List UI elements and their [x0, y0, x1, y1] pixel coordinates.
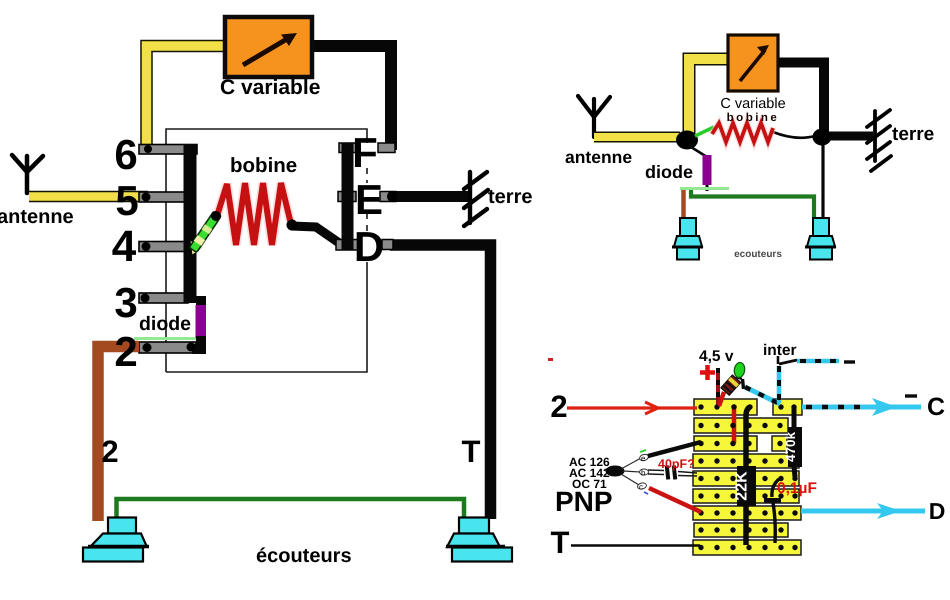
terminal bar E (right piece): [380, 192, 396, 202]
wire: brown lead terminal 2 to left earphone: [98, 347, 139, 522]
svg-text:22K: 22K: [734, 471, 751, 501]
strip row6: [693, 489, 799, 503]
strip row3 right: [772, 436, 787, 451]
wire: base double lead with capacitor 40pF: [648, 470, 697, 476]
ground symbol terre (big): [464, 172, 488, 226]
svg-text:2: 2: [101, 434, 118, 469]
earphone right (mini): [807, 218, 835, 260]
arrow inside C variable: [243, 36, 292, 65]
transistor Q1 (body): [606, 466, 625, 477]
svg-text:2: 2: [114, 328, 137, 375]
wire: diode to terminal 2: [192, 336, 201, 349]
terminal dots: [144, 145, 152, 153]
node: coil left end: [211, 211, 221, 221]
terminal bar D (right piece): [382, 240, 393, 250]
small red speck: [548, 358, 553, 361]
strip row7: [693, 506, 801, 520]
wire: black lead C variable to earth node (mini): [777, 63, 824, 135]
svg-text:e: e: [641, 454, 646, 463]
wire: cyan dashed switch down to strip: [777, 366, 782, 403]
svg-text:écouteurs: écouteurs: [256, 545, 352, 567]
redraw holes over red link: [731, 404, 736, 409]
wire: link node to diode (mini): [691, 147, 707, 157]
coil L1 (bobine, red zigzag): [217, 183, 291, 245]
svg-text:C: C: [927, 393, 945, 421]
svg-text:5: 5: [115, 177, 138, 224]
earphone left (mini): [674, 218, 702, 260]
svg-text:PNP: PNP: [555, 486, 613, 517]
svg-text:4: 4: [112, 222, 137, 271]
svg-text:diode: diode: [645, 162, 693, 182]
wire: black lead C variable to terminal F: [311, 46, 391, 150]
strip row3 left: [694, 436, 757, 451]
wire: red lead resistor to strip: [719, 392, 724, 406]
svg-text:bobine: bobine: [727, 112, 780, 124]
earphone right (écouteur): [447, 518, 512, 562]
svg-text:T: T: [551, 525, 570, 560]
wire: brown lead to left earphone (mini): [681, 190, 686, 217]
crystal detector (green striped element between 4 and coil): [185, 210, 223, 258]
strip holes: [698, 404, 797, 550]
wire: green lead between earphones: [117, 499, 465, 520]
svg-text:c: c: [639, 483, 643, 492]
terminal bar E (left piece): [338, 192, 356, 202]
wire: red input lead node 2: [567, 406, 697, 409]
wire: cyan dashed from switch right: [797, 359, 839, 364]
resistor 22K (black bar with label): [746, 407, 750, 545]
svg-text:0,1µF: 0,1µF: [777, 480, 817, 497]
strip row1 right: [773, 399, 802, 415]
svg-text:D: D: [929, 498, 946, 524]
terminal bar 4: [139, 242, 189, 252]
terminal bar 5: [139, 192, 190, 202]
diode D1 (big, purple body): [196, 305, 207, 338]
pin e: [639, 453, 649, 461]
node: earth junction (mini): [813, 129, 832, 146]
pin c: [637, 482, 647, 490]
svg-text:4,5 v: 4,5 v: [699, 348, 734, 365]
wire: thin link coil to earth node (mini): [773, 132, 815, 138]
wire: yellow lead terminal 6 to C variable: [147, 46, 227, 150]
svg-text:C variable: C variable: [220, 76, 320, 99]
minus sign near C: [905, 394, 917, 397]
strip row1 left: [694, 399, 757, 415]
wire: link terminal 3 to diode: [196, 296, 206, 310]
terminal bar F (right piece): [378, 143, 395, 153]
wire: red link row1 to row3: [732, 407, 737, 443]
wire: battery lead (dark red dashed): [716, 368, 720, 405]
wire: collector to row7 (red): [649, 488, 701, 512]
wire: below diode (mini): [706, 185, 709, 191]
wire: yellow antenna lead (mini): [594, 132, 680, 143]
arrowhead cyan C: [872, 398, 897, 416]
wire: thin frame box around coil circuit: [166, 129, 367, 372]
terminal bar 3: [139, 293, 188, 303]
svg-text:terre: terre: [892, 124, 934, 145]
LED (green): [733, 362, 745, 378]
battery plus sign (red): [700, 365, 715, 380]
breadboard strips: [693, 399, 802, 555]
node: coil right end: [287, 220, 298, 231]
terminal bar 2: [139, 342, 196, 353]
ground symbol terre (mini): [867, 110, 891, 171]
wire: thick lead D to right earphone (node T): [390, 245, 491, 519]
svg-text:T: T: [462, 434, 481, 469]
light green mark (mini): [680, 187, 729, 190]
arrow inside C variable (mini): [740, 50, 765, 81]
capacitor 40pF plates: [665, 465, 670, 479]
resistor 470k (black bar with label): [794, 407, 795, 477]
resistor R (striped body): [721, 375, 741, 395]
wire: coil end to D: [291, 226, 345, 247]
strip row5: [693, 471, 799, 486]
wire: cyan output D: [801, 509, 925, 514]
earphone left (écouteur): [83, 518, 147, 562]
terminal bar D (left piece): [336, 240, 359, 251]
wire: emitter to row3 (thick black): [648, 442, 701, 456]
antenna symbol (mini): [578, 96, 610, 137]
svg-text:antenne: antenne: [0, 206, 74, 228]
capacitor 0,1uF: [772, 479, 779, 497]
svg-text:40pF?: 40pF?: [658, 457, 695, 471]
light green mark above terminal 2: [134, 337, 197, 340]
wire: thick lead E to earth: [394, 191, 470, 202]
node at E: [387, 191, 397, 202]
wire: vertical bus joining F E D: [342, 143, 354, 250]
crystal link (green, mini): [695, 127, 714, 136]
antenna symbol: [12, 155, 43, 193]
variable capacitor (orange box mini): [728, 35, 778, 91]
wire: LED cathode short black: [743, 379, 744, 389]
wire: thick lead node to earth (mini): [828, 132, 873, 141]
svg-text:E: E: [355, 176, 383, 223]
svg-text:6: 6: [114, 131, 137, 178]
svg-text:bobine: bobine: [230, 154, 297, 177]
pin b: [640, 469, 649, 475]
arrowhead on red lead: [645, 402, 658, 414]
svg-text:470k: 470k: [783, 431, 798, 462]
svg-text:terre: terre: [488, 186, 532, 208]
wire: cyan dashed output C: [802, 405, 921, 410]
wire: vertical bus joining terminals 6..3: [184, 144, 197, 303]
svg-text:antenne: antenne: [565, 147, 632, 167]
strip row4: [693, 454, 799, 468]
node: antenna junction (mini): [676, 131, 698, 150]
terminal bar F (left piece): [339, 143, 357, 153]
svg-text:b: b: [641, 469, 646, 478]
coil L (bobine mini, red zigzag): [712, 123, 773, 142]
strip row9: [693, 540, 801, 555]
wire: cyan dashed LED to strip: [745, 387, 780, 404]
svg-text:2: 2: [550, 389, 567, 424]
variable capacitor C1 (orange box): [225, 17, 312, 77]
wire: black lead node to right earphone (mini): [821, 143, 824, 217]
svg-text:diode: diode: [139, 313, 191, 335]
svg-text:C variable: C variable: [720, 96, 785, 112]
black stub after switch wire: [844, 360, 855, 363]
svg-text:D: D: [354, 223, 384, 270]
strip row8: [694, 523, 788, 537]
terminal bar 6: [139, 145, 197, 155]
svg-text:3: 3: [114, 279, 137, 326]
svg-text:ecouteurs: ecouteurs: [734, 249, 782, 260]
wire: yellow antenna lead to terminal 5: [29, 191, 148, 203]
wire: T lead to row9: [571, 544, 700, 547]
switch inter: [777, 356, 780, 364]
svg-text:F: F: [352, 129, 378, 176]
wire: resistor to LED: [736, 377, 742, 379]
transistor leads fan: [621, 458, 641, 485]
arrowhead cyan D: [877, 503, 901, 519]
diode (mini, purple body): [703, 155, 712, 185]
wire: yellow lead to C variable (mini): [689, 59, 729, 136]
strip row2: [694, 418, 788, 433]
wire: green lead between earphones (mini): [691, 190, 814, 217]
svg-text:inter: inter: [763, 342, 797, 359]
